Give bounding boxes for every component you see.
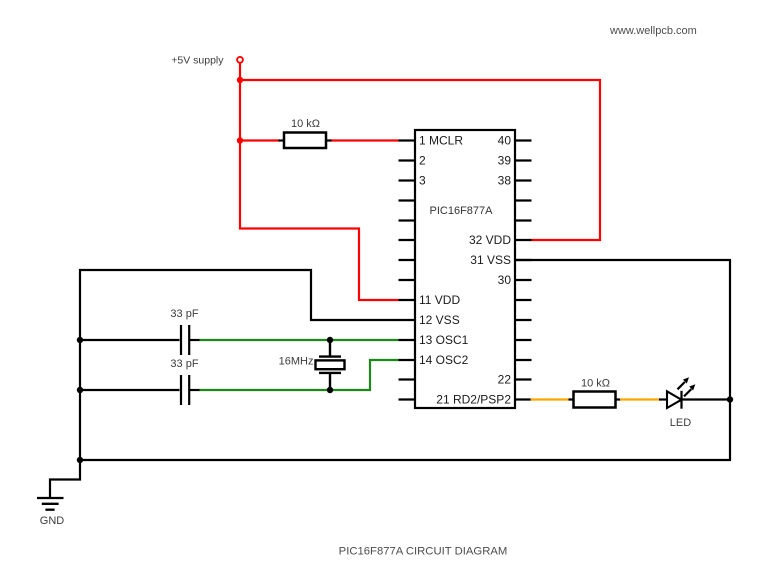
svg-text:32 VDD: 32 VDD (469, 233, 511, 247)
wire red horizontal into pin 32 VDD (531, 239, 602, 241)
IC U1 left pin stubs (399, 141, 416, 400)
wire red right vertical to VDD (599, 79, 601, 241)
wire red from R1 to pin 1 MCLR (330, 139, 399, 141)
wire green OSC1 from C1 to pin 13 (200, 339, 400, 341)
wire green OSC2 from C2 to pin 14 (200, 360, 400, 390)
wire red branch to pin 11 VDD (240, 141, 399, 301)
svg-text:40: 40 (498, 134, 512, 148)
wire orange from R2 to LED (615, 398, 622, 400)
crystal X1 16MHz (316, 340, 345, 390)
svg-text:2: 2 (419, 154, 426, 168)
svg-text:www.wellpcb.com: www.wellpcb.com (609, 25, 697, 37)
wire red top horizontal (239, 79, 601, 81)
wire red vertical from +5V terminal (239, 63, 241, 141)
svg-text:21 RD2/PSP2: 21 RD2/PSP2 (436, 393, 511, 407)
svg-text:22: 22 (498, 373, 512, 387)
junction LED at right rail (727, 396, 733, 402)
svg-text:10 kΩ: 10 kΩ (291, 118, 320, 130)
wire black from LED cathode to right rail (682, 398, 732, 400)
capacitor C2 (181, 375, 189, 405)
svg-text:16MHz: 16MHz (279, 356, 314, 368)
junction crystal top on OSC1 wire (327, 337, 333, 343)
resistor R2 (574, 392, 616, 408)
svg-text:3: 3 (419, 174, 426, 188)
wire black from cap C1 to left rail (80, 339, 180, 341)
wire right rail vertical (729, 259, 731, 461)
svg-text:13 OSC1: 13 OSC1 (419, 333, 469, 347)
junction left rail C1 (77, 337, 83, 343)
wire left ground rail vertical (79, 269, 81, 481)
svg-text:1 MCLR: 1 MCLR (419, 134, 463, 148)
junction red at top rail (237, 77, 243, 83)
wire black VSS from left rail to pin 12 (79, 270, 399, 320)
svg-text:GND: GND (40, 515, 65, 527)
svg-text:38: 38 (498, 174, 512, 188)
IC U1 PIC16F877A body (415, 130, 515, 408)
terminal +5V supply (237, 57, 243, 63)
junction crystal bottom on OSC2 wire (327, 387, 333, 393)
svg-text:+5V supply: +5V supply (171, 55, 224, 67)
svg-text:12 VSS: 12 VSS (419, 313, 460, 327)
wire bottom ground rail (79, 459, 731, 461)
capacitor C1 (181, 325, 189, 355)
wire black from cap C2 to left rail (80, 389, 180, 391)
svg-text:PIC16F877A CIRCUIT DIAGRAM: PIC16F877A CIRCUIT DIAGRAM (339, 546, 508, 558)
svg-text:39: 39 (498, 154, 512, 168)
svg-text:30: 30 (498, 273, 512, 287)
IC U1 right pin stubs (515, 141, 532, 400)
svg-text:14 OSC2: 14 OSC2 (419, 353, 469, 367)
svg-text:11 VDD: 11 VDD (419, 293, 460, 307)
wire black into LED anode (659, 398, 668, 400)
wire orange from pin 21 RD2/PSP2 to R2 (531, 398, 571, 400)
resistor R1 (284, 133, 326, 149)
wire black VSS right from pin 31 (515, 259, 731, 261)
svg-text:PIC16F877A: PIC16F877A (430, 205, 494, 217)
svg-text:33 pF: 33 pF (170, 358, 198, 370)
svg-text:31 VSS: 31 VSS (470, 253, 511, 267)
resistor R1 leads (279, 139, 286, 141)
wire red to resistor R1 (240, 139, 280, 141)
junction red at resistor branch (237, 137, 243, 143)
svg-text:33 pF: 33 pF (170, 308, 198, 320)
svg-text:10 kΩ: 10 kΩ (581, 378, 610, 390)
ground GND symbol (37, 498, 64, 510)
wire ground step to GND symbol (50, 480, 81, 498)
junction left rail bottom (77, 457, 83, 463)
LED D1 (667, 377, 695, 409)
junction left rail C2 (77, 387, 83, 393)
svg-text:LED: LED (670, 417, 691, 429)
